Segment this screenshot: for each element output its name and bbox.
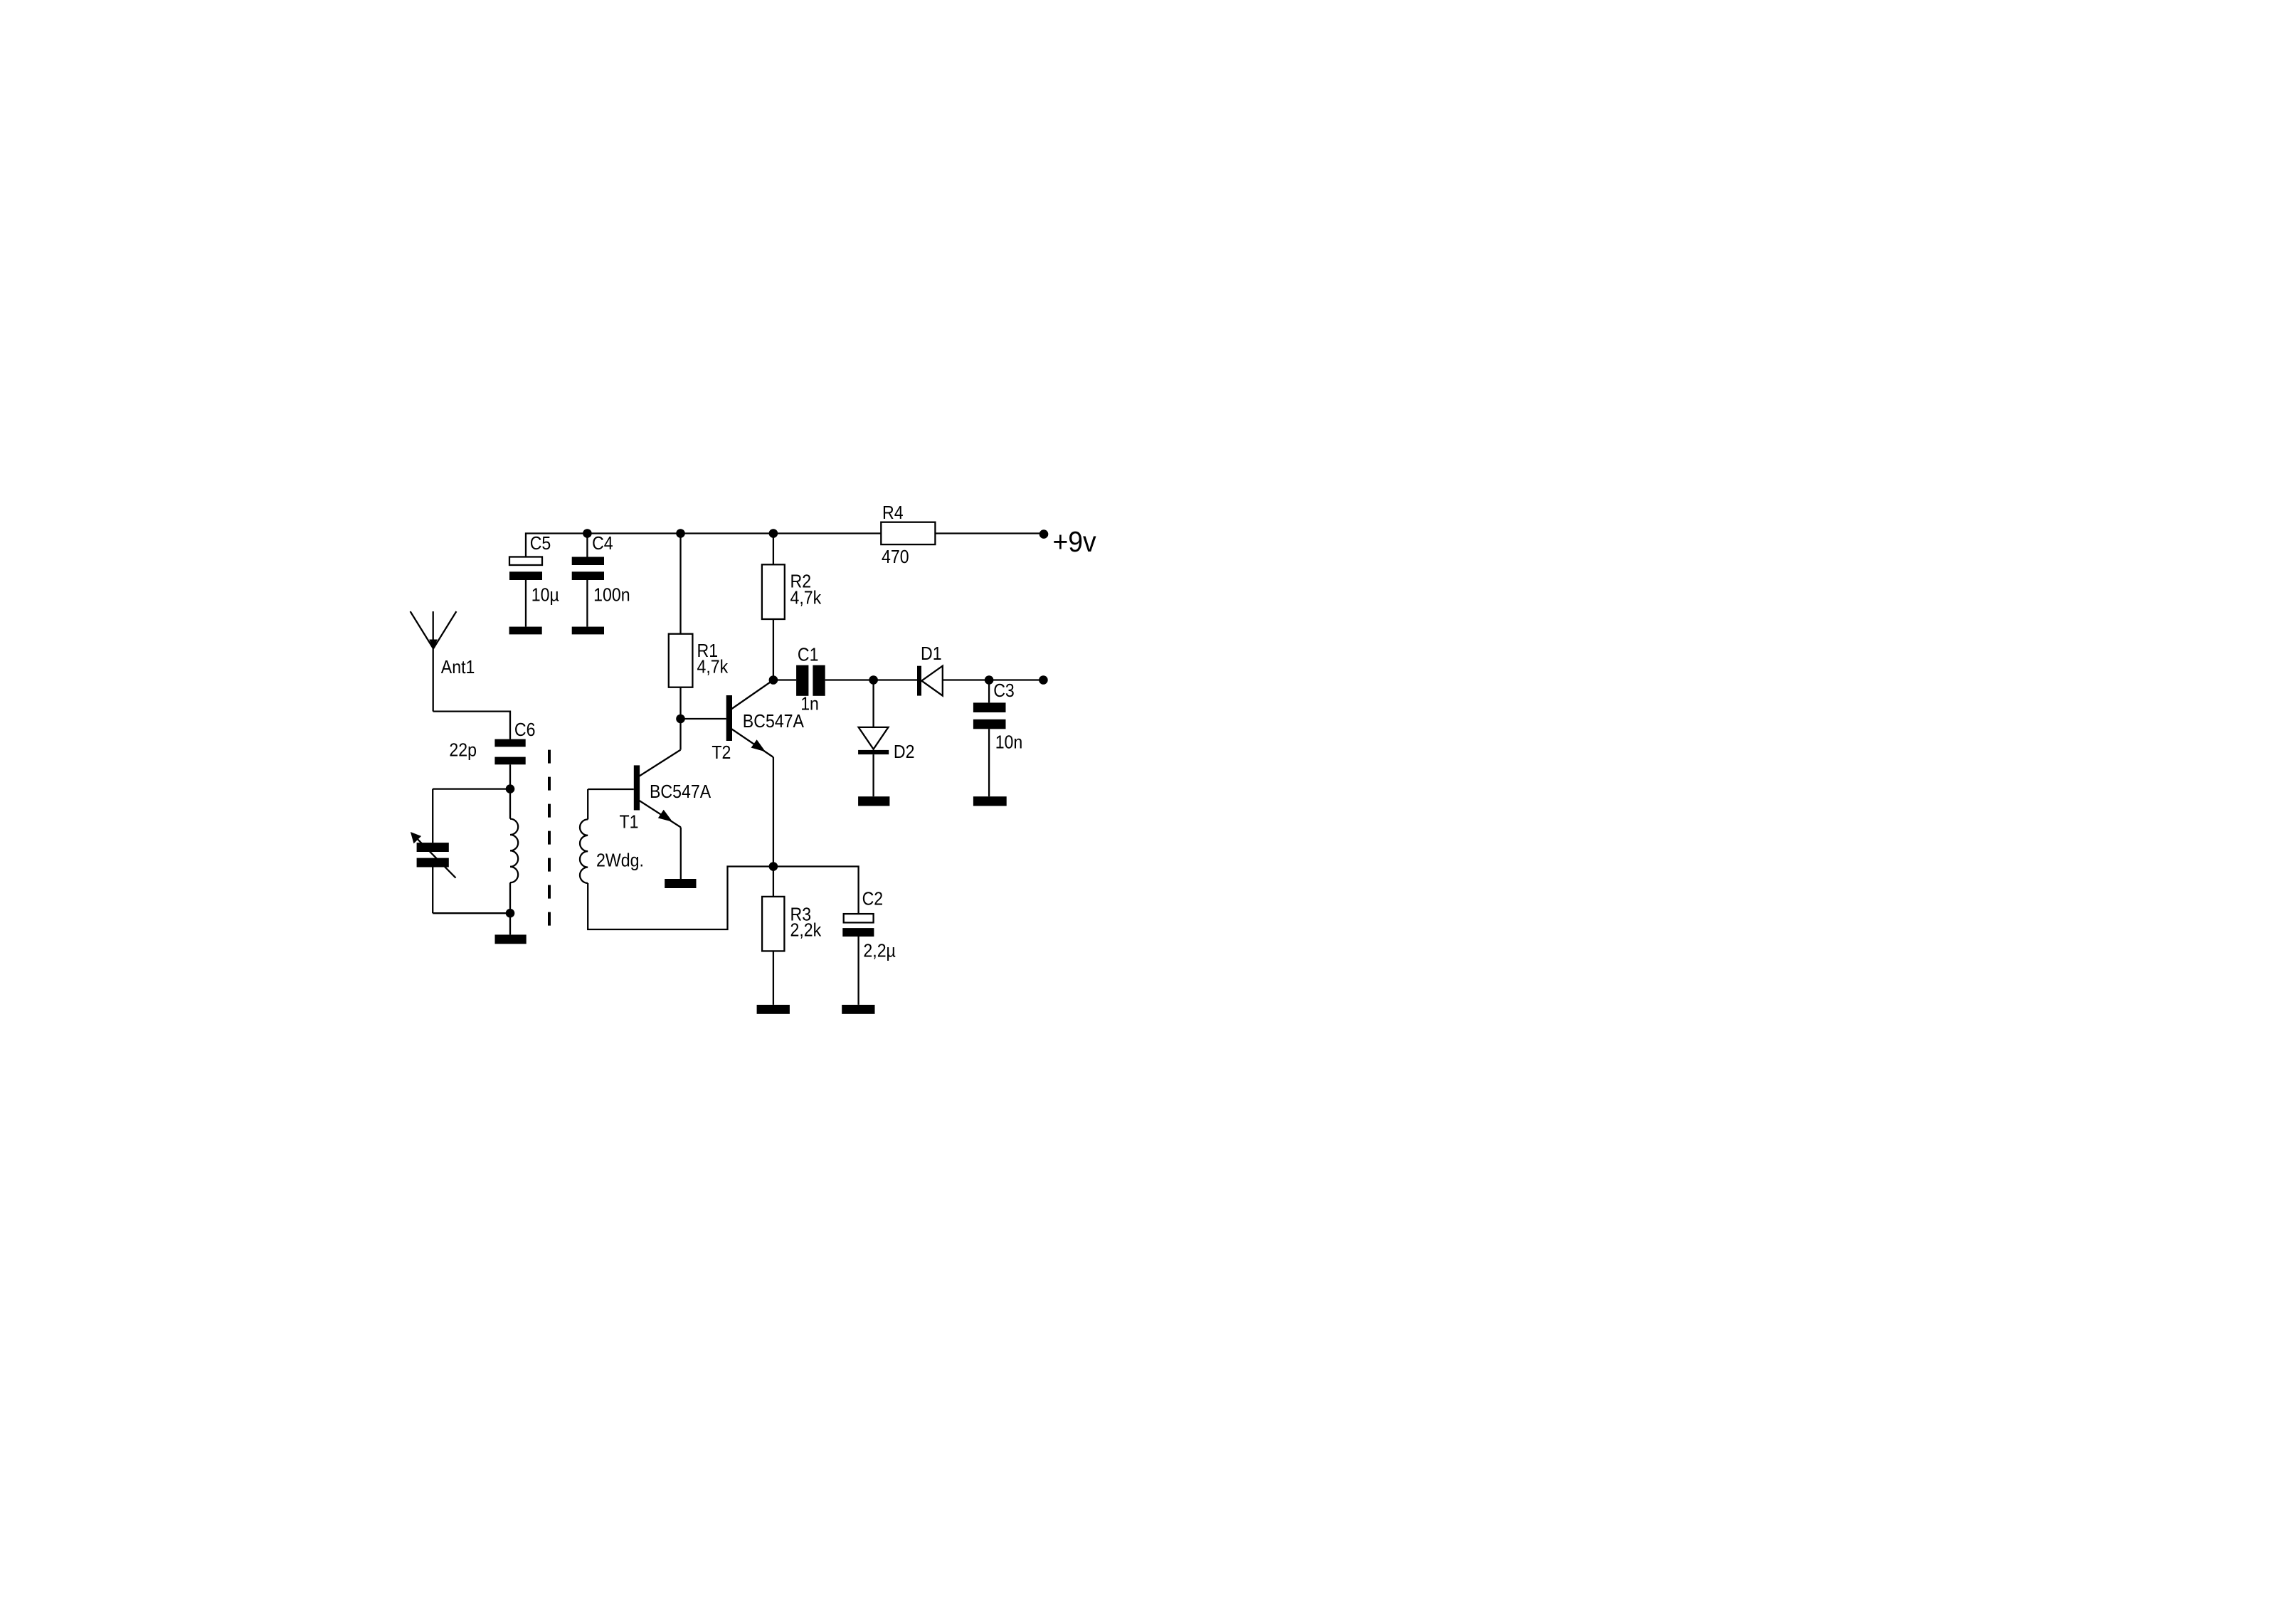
- svg-text:2Wdg.: 2Wdg.: [596, 850, 644, 871]
- ground tank: [495, 934, 527, 944]
- svg-text:T1: T1: [620, 811, 639, 833]
- wire tank top: [433, 788, 510, 789]
- node R2 top junction: [769, 529, 778, 538]
- ground C5: [509, 627, 542, 635]
- svg-text:10µ: 10µ: [531, 584, 559, 605]
- svg-text:C6: C6: [514, 719, 536, 740]
- node C1 left junction: [769, 675, 778, 685]
- node +9v terminal: [1039, 529, 1049, 539]
- wire T1 emitter down: [680, 828, 682, 880]
- capacitor C2 2,2u: [842, 888, 896, 1005]
- wire C1 to D2 node: [825, 679, 874, 680]
- svg-text:BC547A: BC547A: [650, 781, 711, 802]
- svg-text:D1: D1: [921, 643, 942, 664]
- wire D1 to C3 node: [943, 679, 989, 680]
- inductor L2 2Wdg coil: [580, 789, 588, 883]
- svg-text:470: 470: [882, 546, 909, 567]
- node tank top junction: [506, 784, 515, 793]
- svg-text:C3: C3: [993, 680, 1015, 701]
- wire D2 top: [872, 680, 874, 727]
- wire tank bottom: [433, 912, 510, 914]
- wire R2 top: [773, 534, 774, 565]
- capacitor C3 10n: [973, 680, 1022, 796]
- wire T2 base: [681, 718, 726, 719]
- svg-text:+9v: +9v: [1053, 525, 1097, 558]
- svg-text:100n: 100n: [593, 584, 630, 605]
- capacitor C4: [572, 532, 630, 627]
- svg-text:10n: 10n: [995, 732, 1023, 753]
- wire varcap left bottom: [432, 868, 433, 914]
- wire feedback loop: [588, 867, 773, 930]
- svg-text:BC547A: BC547A: [743, 710, 805, 732]
- node T2 base junction: [676, 715, 685, 724]
- svg-text:Ant1: Ant1: [441, 656, 475, 677]
- node D2 junction: [869, 675, 878, 685]
- ground T1: [665, 879, 696, 888]
- core dashed line transformer: [548, 750, 551, 929]
- svg-text:2,2k: 2,2k: [790, 919, 822, 941]
- ground C4: [572, 627, 604, 635]
- wire antenna to C6: [433, 712, 510, 739]
- capacitor C5: [509, 532, 559, 627]
- svg-text:22p: 22p: [449, 739, 477, 761]
- wire +9v top rail: [526, 534, 1044, 557]
- node C3 junction: [985, 675, 994, 685]
- node C4 junction: [583, 529, 592, 538]
- diode D1: [917, 643, 943, 696]
- wire R1 top: [679, 534, 681, 634]
- node R1 top junction: [676, 529, 685, 538]
- resistor R3 2,2k: [762, 867, 822, 1005]
- svg-text:1n: 1n: [800, 693, 819, 715]
- svg-text:2,2µ: 2,2µ: [863, 940, 896, 961]
- node tank bottom junction: [506, 909, 515, 918]
- node emitter junction: [769, 862, 778, 871]
- wire C2 branch: [773, 867, 859, 914]
- wire T2 emitter down: [773, 757, 774, 867]
- transistor T1 BC547A: [588, 719, 711, 833]
- wire tank bottom to ground: [509, 913, 511, 934]
- ground D2: [858, 796, 889, 806]
- capacitor variable tuning: [411, 832, 456, 878]
- ground R3: [757, 1005, 790, 1014]
- antenna Ant1: [411, 611, 475, 712]
- svg-text:D2: D2: [894, 741, 915, 762]
- svg-text:4,7k: 4,7k: [790, 586, 822, 608]
- resistor R2 4,7k: [762, 564, 822, 680]
- capacitor C6 22p: [449, 719, 535, 789]
- wire C3 node to output: [989, 679, 1043, 680]
- svg-text:T2: T2: [711, 742, 731, 763]
- svg-text:4,7k: 4,7k: [697, 656, 729, 677]
- resistor R4 470: [881, 502, 935, 567]
- ground C3: [973, 796, 1007, 806]
- svg-text:R4: R4: [882, 502, 904, 523]
- resistor R1 4,7k: [669, 634, 729, 719]
- wire varcap left top: [432, 789, 433, 843]
- svg-text:C5: C5: [530, 532, 551, 554]
- svg-text:C4: C4: [592, 532, 613, 554]
- diode D2: [858, 727, 914, 796]
- svg-text:C1: C1: [798, 644, 819, 665]
- svg-text:C2: C2: [862, 888, 884, 909]
- wire C4 drop: [586, 534, 588, 557]
- capacitor C1 1n: [796, 644, 825, 715]
- wire D2 node to D1: [874, 679, 917, 680]
- ground C2: [842, 1005, 874, 1014]
- wire C1 left: [773, 679, 796, 680]
- transistor T2 BC547A: [711, 680, 804, 764]
- node output terminal: [1039, 675, 1048, 685]
- inductor L1 tank coil: [510, 789, 518, 914]
